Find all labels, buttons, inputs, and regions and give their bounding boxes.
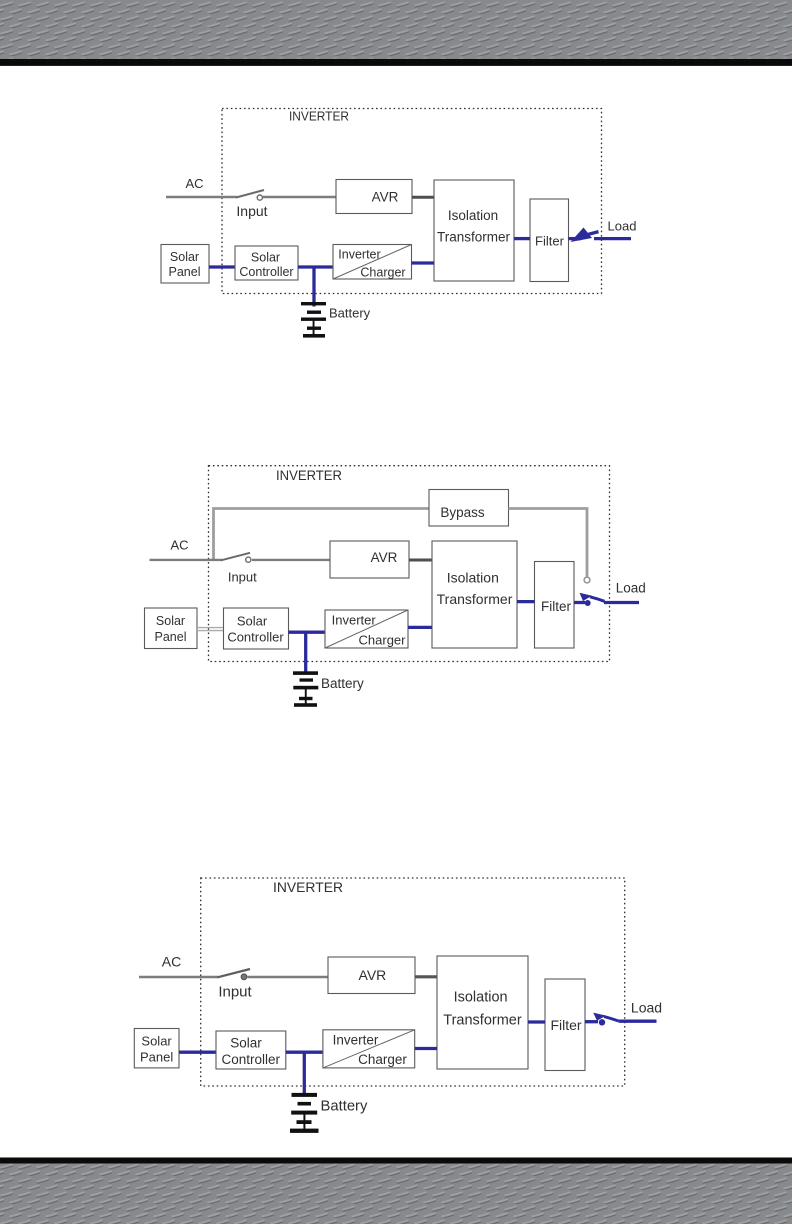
svg-text:Inverter: Inverter bbox=[333, 1033, 379, 1048]
output switch blade with arrow D1 bbox=[571, 228, 599, 243]
svg-text:Load: Load bbox=[631, 1000, 662, 1016]
switch input blade D3 bbox=[218, 969, 251, 977]
svg-text:Filter: Filter bbox=[550, 1017, 581, 1033]
block isolation transformer D1 bbox=[434, 180, 514, 281]
svg-text:Charger: Charger bbox=[360, 266, 405, 280]
block filter D3 bbox=[545, 979, 585, 1071]
svg-text:Transformer: Transformer bbox=[443, 1013, 522, 1029]
svg-text:Solar: Solar bbox=[170, 250, 199, 264]
label Load D3 bbox=[631, 1000, 662, 1016]
wire filter to output switch D3 bbox=[585, 1020, 598, 1023]
block solar controller D1 bbox=[235, 246, 298, 280]
label INVERTER D3 bbox=[273, 879, 343, 895]
svg-text:Solar: Solar bbox=[251, 251, 280, 265]
svg-text:Panel: Panel bbox=[169, 265, 201, 279]
switch input contact circle D1 bbox=[257, 195, 262, 200]
svg-text:AC: AC bbox=[170, 538, 188, 553]
svg-text:Controller: Controller bbox=[239, 265, 293, 279]
svg-text:Inverter: Inverter bbox=[332, 612, 377, 627]
wire panel to controller D3 bbox=[179, 1051, 216, 1054]
wire transformer to filter D1 bbox=[514, 237, 530, 240]
block inverter charger D3 bbox=[323, 1030, 415, 1068]
block solar controller D2 bbox=[224, 608, 289, 649]
label INVERTER D1 bbox=[289, 109, 349, 124]
svg-text:Isolation: Isolation bbox=[447, 570, 499, 586]
switch input blade D2 bbox=[221, 553, 250, 561]
wire battery junction D2 bbox=[304, 632, 307, 671]
bottom black bar bbox=[0, 1158, 792, 1164]
wire filter to output switch D1 bbox=[569, 237, 582, 240]
svg-text:INVERTER: INVERTER bbox=[273, 879, 343, 895]
svg-text:Filter: Filter bbox=[535, 234, 565, 249]
wire battery junction D3 bbox=[303, 1052, 306, 1093]
svg-text:AVR: AVR bbox=[371, 550, 398, 565]
label Input D2 bbox=[228, 570, 257, 585]
wire switch to AVR D3 bbox=[248, 976, 329, 978]
wire switch to load D1 bbox=[594, 237, 631, 240]
svg-text:Solar: Solar bbox=[156, 614, 185, 628]
wire AVR to transformer D1 bbox=[412, 196, 434, 199]
wire bypass riser left D2 bbox=[214, 509, 430, 561]
inverter dashed enclosure D2 bbox=[209, 466, 610, 662]
svg-text:AC: AC bbox=[162, 954, 181, 970]
battery symbol D3 bbox=[290, 1093, 319, 1133]
label Battery D3 bbox=[321, 1099, 368, 1115]
svg-text:Load: Load bbox=[608, 219, 637, 234]
bypass open terminal circle D2 bbox=[584, 577, 590, 583]
wire switch to AVR D1 bbox=[263, 196, 336, 198]
block solar panel D2 bbox=[145, 608, 198, 649]
wire controller to inverter charger D1 bbox=[298, 265, 333, 268]
block isolation transformer D2 bbox=[432, 541, 517, 648]
wire AC input left D2 bbox=[150, 559, 223, 561]
label Battery D1 bbox=[329, 306, 371, 321]
svg-text:AVR: AVR bbox=[359, 967, 387, 983]
svg-text:Battery: Battery bbox=[329, 306, 371, 321]
label AC D3 bbox=[162, 954, 181, 970]
svg-text:Inverter: Inverter bbox=[338, 248, 380, 262]
label Input D3 bbox=[218, 984, 252, 1001]
wire controller to inverter charger D3 bbox=[286, 1051, 323, 1054]
svg-text:AC: AC bbox=[185, 176, 203, 191]
block solar panel D1 bbox=[161, 245, 209, 284]
inverter dashed enclosure D3 bbox=[201, 878, 625, 1086]
bottom textured band bbox=[0, 1164, 792, 1224]
label AC D2 bbox=[170, 538, 188, 553]
wire inverter charger to transformer D2 bbox=[408, 626, 432, 629]
block inverter charger D1 bbox=[333, 245, 412, 280]
switch input contact circle D3 bbox=[241, 974, 247, 980]
block AVR D1 bbox=[336, 180, 412, 214]
wire panel to controller double line D2 bbox=[197, 628, 224, 631]
svg-text:Load: Load bbox=[616, 581, 646, 596]
inverter dashed enclosure D1 bbox=[222, 109, 602, 294]
svg-text:Panel: Panel bbox=[155, 630, 187, 644]
block bypass D2 bbox=[429, 490, 509, 527]
wire transformer to filter D2 bbox=[517, 600, 535, 603]
label INVERTER D2 bbox=[276, 468, 342, 483]
wire filter to output switch D2 bbox=[574, 601, 585, 604]
block filter D2 bbox=[535, 562, 575, 649]
block filter D1 bbox=[530, 199, 569, 282]
wire transformer to filter D3 bbox=[528, 1020, 545, 1023]
wire bypass right to drop D2 bbox=[509, 509, 588, 577]
top black bar bbox=[0, 59, 792, 66]
wire switch to load D2 bbox=[604, 601, 639, 604]
battery symbol D1 bbox=[301, 302, 326, 338]
block AVR D3 bbox=[328, 957, 415, 994]
wire inverter charger to transformer D3 bbox=[415, 1047, 437, 1050]
output switch contact dot D2 bbox=[585, 600, 591, 606]
svg-text:Panel: Panel bbox=[140, 1050, 173, 1065]
svg-text:Input: Input bbox=[236, 203, 267, 219]
svg-text:Filter: Filter bbox=[541, 599, 572, 614]
svg-text:Input: Input bbox=[228, 570, 257, 585]
wire controller to inverter charger D2 bbox=[289, 631, 326, 634]
svg-text:Transformer: Transformer bbox=[437, 230, 511, 245]
wire panel to controller D1 bbox=[209, 265, 235, 268]
label Input D1 bbox=[236, 203, 267, 219]
svg-text:Solar: Solar bbox=[141, 1034, 172, 1049]
block AVR D2 bbox=[330, 541, 409, 578]
wire AVR to transformer D2 bbox=[409, 559, 432, 562]
svg-text:Controller: Controller bbox=[222, 1052, 281, 1067]
svg-text:Input: Input bbox=[218, 984, 252, 1001]
wire inverter charger to transformer D1 bbox=[412, 261, 435, 264]
svg-text:AVR: AVR bbox=[372, 190, 399, 205]
top textured band bbox=[0, 0, 792, 59]
block isolation transformer D3 bbox=[437, 956, 528, 1069]
svg-text:Bypass: Bypass bbox=[440, 505, 485, 520]
switch input blade D1 bbox=[236, 190, 264, 198]
label Load D2 bbox=[616, 581, 646, 596]
svg-text:Battery: Battery bbox=[321, 676, 364, 691]
label Load D1 bbox=[608, 219, 637, 234]
svg-text:Solar: Solar bbox=[237, 614, 268, 629]
svg-text:Charger: Charger bbox=[359, 632, 407, 647]
svg-text:Controller: Controller bbox=[227, 630, 284, 645]
svg-text:Isolation: Isolation bbox=[454, 990, 508, 1006]
svg-text:Charger: Charger bbox=[358, 1052, 407, 1067]
output switch blade with arrow D2 bbox=[580, 593, 605, 602]
switch input contact circle D2 bbox=[246, 557, 251, 562]
block inverter charger D2 bbox=[325, 610, 408, 648]
wire AC input left D1 bbox=[166, 196, 237, 198]
wire switch to load D3 bbox=[619, 1020, 657, 1023]
output switch contact dot D3 bbox=[599, 1019, 605, 1025]
svg-text:Battery: Battery bbox=[321, 1099, 368, 1115]
svg-text:INVERTER: INVERTER bbox=[289, 109, 349, 124]
svg-text:Solar: Solar bbox=[230, 1036, 262, 1051]
wire battery junction D1 bbox=[312, 267, 315, 307]
svg-text:INVERTER: INVERTER bbox=[276, 468, 342, 483]
svg-text:Transformer: Transformer bbox=[437, 591, 513, 607]
wire AVR to transformer D3 bbox=[415, 975, 437, 978]
block solar controller D3 bbox=[216, 1031, 286, 1069]
battery symbol D2 bbox=[293, 671, 318, 707]
output switch blade with arrow D3 bbox=[593, 1013, 618, 1021]
label AC D1 bbox=[185, 176, 203, 191]
svg-text:Isolation: Isolation bbox=[448, 208, 498, 223]
wire AC input left D3 bbox=[139, 976, 219, 978]
label Battery D2 bbox=[321, 676, 364, 691]
wire switch to AVR D2 bbox=[252, 559, 330, 561]
block solar panel D3 bbox=[134, 1029, 179, 1068]
